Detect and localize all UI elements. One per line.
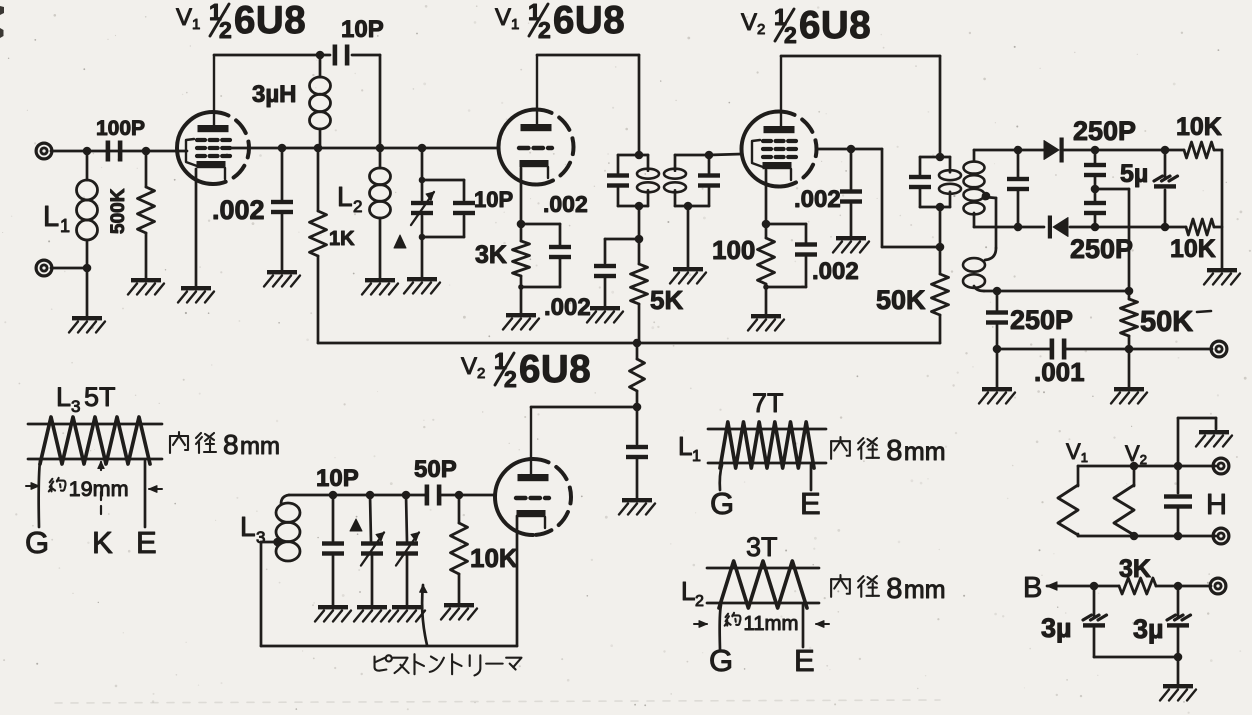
wire main rail stage2 bbox=[230, 147, 499, 150]
svg-text:mm: mm bbox=[904, 438, 946, 466]
svg-text:G: G bbox=[710, 486, 734, 521]
capacitor .002 (V1b cathode) bbox=[521, 191, 588, 287]
ground under L1 bbox=[69, 316, 105, 333]
capacitor H bypass bbox=[1164, 466, 1227, 536]
node Z (osc feed) bbox=[633, 339, 642, 348]
wire B caps bottom bbox=[1094, 656, 1178, 659]
svg-text:2: 2 bbox=[695, 593, 704, 610]
label piston trimmer text bbox=[375, 654, 522, 675]
svg-text:L: L bbox=[43, 201, 59, 233]
inductor 3uH bbox=[252, 55, 331, 149]
svg-text:2: 2 bbox=[538, 17, 551, 43]
capacitor .002 (IFT1 return) bbox=[544, 239, 639, 321]
ground under L2 bbox=[362, 278, 398, 295]
svg-text:8: 8 bbox=[886, 573, 902, 605]
node AH (B ground) bbox=[1174, 653, 1183, 662]
ground under 50K output bbox=[1111, 349, 1147, 404]
svg-text:2: 2 bbox=[784, 22, 797, 48]
capacitor .002 (V2a cathode) bbox=[766, 224, 859, 287]
svg-text:3K: 3K bbox=[475, 241, 507, 269]
tube V2b triode bbox=[495, 459, 571, 535]
heater circuit top rail bbox=[1078, 465, 1216, 468]
node Y (output junction) bbox=[1125, 345, 1134, 354]
ground under 10K osc bbox=[441, 603, 477, 620]
resistor 100 bbox=[712, 224, 775, 314]
wire V1a plate up bbox=[214, 55, 330, 125]
wire input top to grid bbox=[51, 150, 187, 153]
resistor 3K (B) bbox=[1094, 555, 1178, 594]
wire V2a plate up bbox=[781, 56, 940, 157]
capacitor 250P upper bbox=[1084, 150, 1106, 189]
svg-text:8: 8 bbox=[886, 435, 902, 467]
wire divider right side bbox=[1221, 150, 1224, 268]
node W (50K top) bbox=[1125, 287, 1134, 296]
svg-text:mm: mm bbox=[240, 433, 280, 460]
resistor 50K (AVC) bbox=[876, 247, 949, 343]
svg-text:2: 2 bbox=[504, 366, 517, 392]
detail L3 note inner dia bbox=[170, 429, 280, 460]
wire L3 tap return bbox=[261, 516, 517, 646]
resistor 5K bbox=[631, 239, 684, 343]
node G (L2 junction) bbox=[376, 144, 385, 153]
detail L1 note inner dia bbox=[831, 435, 945, 467]
wire 10P to rail bbox=[352, 55, 380, 149]
capacitor .002 (stage1) bbox=[212, 148, 293, 270]
terminal J3 (audio output) bbox=[1211, 341, 1227, 357]
heater V2 filament bbox=[1114, 441, 1147, 536]
ground under .002 stage1 bbox=[264, 270, 300, 287]
transformer T2 secondary bbox=[964, 150, 1045, 227]
svg-text:.002: .002 bbox=[812, 258, 859, 285]
capacitor trimmer (L2 tank) bbox=[411, 192, 434, 225]
ground under tank bbox=[404, 277, 440, 294]
wire V2a cathode bbox=[765, 170, 768, 224]
svg-text:10P: 10P bbox=[316, 465, 359, 492]
resistor 500K bbox=[108, 151, 155, 278]
label V2 1/2 6U8 (fourth) bbox=[461, 348, 591, 392]
detail L1 coil (7T) bbox=[678, 388, 826, 521]
svg-text:250P: 250P bbox=[1073, 116, 1136, 146]
svg-text:G: G bbox=[25, 525, 49, 560]
svg-text:10K: 10K bbox=[1176, 113, 1222, 141]
transformer IFT2 primary bbox=[909, 153, 961, 212]
wire V2b grid rail bbox=[289, 494, 495, 497]
wire IFT1 to V2a grid bbox=[709, 154, 742, 155]
svg-text:3K: 3K bbox=[1119, 555, 1151, 583]
svg-text:mm: mm bbox=[904, 576, 946, 604]
tube V1a pentode bbox=[177, 112, 249, 184]
resistor 10K lower bbox=[1095, 219, 1222, 263]
terminal J6 (B input) bbox=[1210, 578, 1226, 594]
label V2 1/2 6U8 (third) bbox=[741, 4, 871, 48]
svg-text:5K: 5K bbox=[650, 285, 683, 315]
ground under .002 IFT1 bbox=[587, 306, 623, 323]
node AF (B left) bbox=[1090, 582, 1099, 591]
svg-text:E: E bbox=[794, 643, 815, 678]
svg-text:.002: .002 bbox=[543, 191, 588, 217]
svg-text:100: 100 bbox=[712, 235, 755, 265]
svg-text:L: L bbox=[678, 431, 692, 461]
svg-text:K: K bbox=[92, 525, 113, 560]
svg-text:G: G bbox=[709, 643, 733, 678]
marker triangle (osc) bbox=[350, 519, 362, 531]
ground under 500K bbox=[128, 278, 164, 295]
svg-text:5T: 5T bbox=[84, 382, 116, 412]
capacitor .002 (V2a grid) bbox=[794, 149, 862, 236]
node AE (H cap top) bbox=[1174, 462, 1183, 471]
wire V1a cathode to ground bbox=[195, 169, 198, 286]
detail L2 note inner dia bbox=[831, 573, 945, 605]
node C (500K junction) bbox=[142, 147, 151, 156]
label V1 1/2 6U8 (first) bbox=[176, 0, 306, 43]
capacitor 100P bbox=[96, 117, 145, 162]
capacitor 10P (osc coupling top) bbox=[333, 16, 384, 66]
terminal J1 (antenna input top) bbox=[36, 143, 52, 159]
svg-text:6U8: 6U8 bbox=[234, 0, 306, 42]
diode D2 bbox=[1048, 216, 1133, 265]
wire osc to V2b plate bbox=[531, 407, 637, 477]
inductor L1 bbox=[43, 151, 98, 268]
wire IFT1 sec bottom to ground bbox=[687, 206, 690, 267]
ground under V1a cathode bbox=[178, 286, 214, 303]
svg-text:.001: .001 bbox=[1034, 357, 1085, 387]
svg-text:5µ: 5µ bbox=[1120, 160, 1148, 188]
wire IFT1 primary bottom bbox=[638, 206, 641, 239]
tube V1b triode bbox=[499, 110, 574, 185]
resistor (osc feed) bbox=[630, 343, 645, 407]
node D (3uH top) bbox=[316, 51, 325, 60]
capacitor (osc bypass) bbox=[626, 407, 648, 498]
svg-text:2: 2 bbox=[353, 197, 362, 216]
node J (3K bottom) bbox=[518, 284, 524, 290]
svg-text:L: L bbox=[240, 511, 256, 542]
svg-text:7T: 7T bbox=[752, 388, 784, 418]
node X (output line left) bbox=[993, 345, 1002, 354]
node T (D2 out) bbox=[1091, 223, 1100, 232]
node M (100 bottom) bbox=[763, 284, 769, 290]
label B with arrow bbox=[1023, 572, 1094, 604]
node I (V1b cathode junction) bbox=[517, 220, 526, 229]
capacitor 5u electrolytic bbox=[1120, 146, 1178, 232]
wire V1b plate up bbox=[537, 55, 639, 154]
svg-text:E: E bbox=[800, 486, 821, 521]
ground under trimmer1 bbox=[354, 605, 390, 622]
node V (tertiary out) bbox=[993, 287, 1002, 296]
ground under 250P bbox=[979, 349, 1015, 404]
svg-text:3µ: 3µ bbox=[1041, 613, 1072, 643]
detail L2 dimension 11mm bbox=[694, 613, 829, 635]
svg-text:E: E bbox=[136, 525, 157, 560]
wire tertiary line bbox=[997, 290, 1129, 293]
svg-text:11mm: 11mm bbox=[743, 613, 798, 635]
svg-text:3T: 3T bbox=[746, 532, 778, 562]
wire tap to tertiary bbox=[982, 194, 996, 248]
inductor tertiary winding bbox=[963, 248, 997, 291]
svg-text:3µ: 3µ bbox=[1133, 614, 1164, 644]
marker triangle (tank) bbox=[394, 235, 406, 248]
detail L3 coil (5T) bbox=[25, 382, 162, 560]
node AA (osc junction) bbox=[633, 403, 642, 412]
terminal J5 (heater bottom) bbox=[1213, 528, 1229, 544]
svg-text:L: L bbox=[56, 382, 71, 412]
resistor 1K bbox=[310, 148, 356, 343]
inductor L2 bbox=[337, 148, 391, 278]
svg-text:50K: 50K bbox=[1140, 306, 1193, 338]
detail L2 coil (3T) bbox=[681, 532, 819, 678]
svg-text:3µH: 3µH bbox=[252, 81, 297, 108]
node U (caps midpoint) bbox=[1091, 185, 1100, 194]
svg-text:50P: 50P bbox=[414, 456, 457, 483]
heater ground stub bbox=[1178, 418, 1232, 466]
capacitor 10P (tank) bbox=[453, 187, 513, 215]
node A (L1 top tap) bbox=[83, 147, 92, 156]
svg-text:8: 8 bbox=[223, 429, 239, 460]
capacitor 3u (right) bbox=[1133, 586, 1191, 657]
capacitor 250P (de-emphasis) bbox=[986, 291, 1073, 349]
node L (V2a cathode junction) bbox=[762, 220, 771, 229]
svg-text:19mm: 19mm bbox=[69, 476, 129, 501]
ground under .002 V2a bbox=[833, 236, 869, 253]
svg-text:.002: .002 bbox=[794, 186, 841, 213]
svg-text:6U8: 6U8 bbox=[799, 4, 871, 47]
svg-text:250P: 250P bbox=[1010, 305, 1073, 335]
node P (sec top) bbox=[1014, 146, 1023, 155]
wire IFT2 primary bottom bbox=[939, 207, 942, 247]
resistor 50K (output) bbox=[1121, 291, 1212, 349]
svg-text:10K: 10K bbox=[1170, 235, 1216, 263]
ground under osc bypass bbox=[619, 498, 655, 515]
tube V2a pentode bbox=[742, 112, 817, 187]
svg-text:250P: 250P bbox=[1070, 234, 1133, 264]
svg-text:10P: 10P bbox=[341, 16, 384, 43]
svg-text:H: H bbox=[1206, 489, 1227, 521]
svg-text:10P: 10P bbox=[474, 187, 513, 212]
capacitor piston trimmer 1 bbox=[361, 491, 384, 605]
terminal J4 (heater top) bbox=[1213, 458, 1229, 474]
ground under 3K bbox=[503, 313, 539, 330]
terminal J2 (antenna input bottom) bbox=[36, 260, 52, 276]
ground under IFT1 secondary bbox=[670, 267, 706, 284]
resistor 3K bbox=[475, 224, 530, 313]
node N (.002 V2a junction) bbox=[847, 145, 856, 154]
resistor 10K upper bbox=[1095, 113, 1222, 158]
capacitor 50P bbox=[414, 456, 457, 506]
svg-text:1K: 1K bbox=[329, 228, 355, 250]
capacitor 10P (osc fixed) bbox=[316, 465, 359, 605]
node AD (V2 fil top) bbox=[1130, 462, 1139, 471]
svg-text:100P: 100P bbox=[96, 117, 145, 140]
label piston trimmer pointer bbox=[420, 585, 427, 645]
inductor L3 bbox=[240, 495, 300, 561]
svg-text:.002: .002 bbox=[544, 294, 591, 321]
ground under 10P osc bbox=[315, 605, 351, 622]
heater bottom rail bbox=[1078, 532, 1216, 541]
wire V2a grid rail right bbox=[816, 149, 940, 247]
ground under B circuit bbox=[1160, 657, 1196, 701]
wire V1b cathode bbox=[520, 168, 523, 224]
svg-text:500K: 500K bbox=[108, 188, 129, 234]
resistor 10K (osc grid) bbox=[451, 495, 518, 603]
node K (IFT1 return) bbox=[635, 235, 644, 244]
capacitor 250P lower bbox=[1084, 189, 1106, 227]
transformer IFT1 secondary bbox=[664, 151, 720, 211]
svg-text:3: 3 bbox=[71, 397, 80, 416]
wire midpoint to 50K bbox=[1095, 189, 1129, 291]
capacitor (det secondary) bbox=[1007, 150, 1029, 227]
svg-text:L: L bbox=[337, 181, 353, 212]
svg-text:B: B bbox=[1023, 572, 1042, 604]
node AC (L3 tap) bbox=[273, 538, 282, 547]
node AG (B right) bbox=[1174, 582, 1183, 591]
wire tank frame bbox=[419, 148, 464, 277]
wire bottom rail bbox=[318, 342, 940, 345]
transformer IFT1 primary bbox=[607, 151, 659, 211]
node B (L1 bottom) bbox=[51, 264, 91, 316]
node F (1K junction) bbox=[314, 144, 323, 153]
node H (tank junction) bbox=[418, 144, 427, 153]
wire B to terminal bbox=[1178, 585, 1211, 588]
svg-text:1: 1 bbox=[692, 448, 701, 465]
svg-text:2: 2 bbox=[219, 17, 232, 43]
heater V1 filament bbox=[1058, 439, 1088, 536]
svg-text:.002: .002 bbox=[212, 195, 265, 225]
node S (D1 out) bbox=[1091, 146, 1100, 155]
wire to output terminal bbox=[1129, 348, 1212, 351]
detail L3 dimension 19mm bbox=[26, 476, 162, 501]
svg-text:50K: 50K bbox=[876, 285, 926, 315]
capacitor piston trimmer 2 bbox=[396, 491, 419, 605]
svg-text:6U8: 6U8 bbox=[519, 348, 591, 391]
node E (.002 junction) bbox=[278, 144, 287, 153]
node R (sec tap) bbox=[982, 192, 991, 201]
capacitor .001 bbox=[997, 339, 1129, 388]
svg-text:L: L bbox=[681, 576, 695, 606]
ground under 100 bbox=[748, 314, 784, 331]
ground under divider bbox=[1204, 268, 1240, 285]
diode D1 bbox=[1018, 116, 1136, 163]
node Q (sec bottom) bbox=[1014, 223, 1023, 232]
svg-text:6U8: 6U8 bbox=[553, 0, 625, 42]
ground under trimmer2 bbox=[389, 605, 425, 622]
label V1 1/2 6U8 (second) bbox=[495, 0, 625, 43]
svg-text:1: 1 bbox=[60, 216, 70, 236]
svg-text:10K: 10K bbox=[470, 543, 518, 573]
node O (50K AVC junction) bbox=[936, 243, 945, 252]
node AB (10K junction) bbox=[455, 491, 464, 500]
capacitor 3u (left) bbox=[1041, 586, 1107, 657]
